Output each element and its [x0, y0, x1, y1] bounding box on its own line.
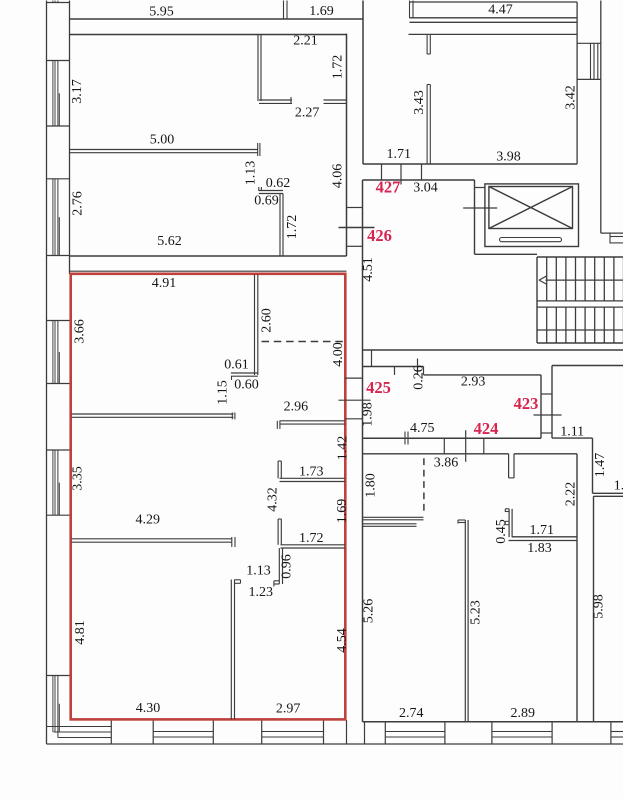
corridor 425 top wall right	[424, 374, 542, 376]
label 3.98	[496, 150, 521, 165]
svg-text:1.69: 1.69	[309, 4, 334, 19]
corridor top wall step	[423, 367, 425, 375]
label 1.83	[527, 541, 552, 556]
svg-text:3.98: 3.98	[496, 150, 521, 165]
svg-text:1.13: 1.13	[244, 161, 259, 186]
room 5.26 top wall	[363, 524, 417, 527]
staircase direction arrow	[539, 276, 623, 285]
stub wall 0.45	[505, 509, 512, 537]
corridor 425 top wall left	[363, 366, 424, 368]
label 2.60	[260, 308, 275, 333]
wall 1.11	[552, 437, 593, 439]
wall 1.72 L-shape	[278, 519, 345, 548]
door connector 423 lower	[541, 432, 552, 434]
apartment divider wall faces at bottom	[347, 720, 365, 744]
closet right wall / corridor wall	[346, 34, 348, 257]
svg-text:4.32: 4.32	[266, 487, 281, 512]
door connector 4.06-426 upper	[347, 207, 363, 209]
upper apartment top wall	[70, 34, 347, 36]
dashed wall line	[423, 458, 425, 514]
wall 5.98	[593, 496, 595, 722]
label 3.35	[71, 466, 86, 491]
svg-text:3.43: 3.43	[412, 90, 427, 115]
label 2.76	[70, 191, 85, 216]
corridor entry tick	[417, 359, 419, 375]
svg-text:425: 425	[366, 378, 391, 397]
room top wall right	[514, 453, 577, 455]
elevator inner box with X	[489, 187, 573, 229]
label 425	[366, 378, 391, 397]
svg-text:2.96: 2.96	[284, 399, 309, 414]
svg-text:1.42: 1.42	[336, 436, 351, 461]
svg-text:427: 427	[376, 177, 401, 196]
svg-text:1.98: 1.98	[361, 402, 376, 427]
door jamb tick b	[400, 164, 402, 185]
svg-text:5.62: 5.62	[157, 234, 182, 249]
label 1.4 clipped at edge	[614, 479, 623, 494]
window W4 on left exterior wall	[47, 321, 70, 384]
partition 3.43 lower	[427, 85, 430, 165]
wall 1.73 L-shape	[278, 461, 345, 482]
corridor south wall	[363, 349, 623, 351]
label 4.29	[136, 513, 161, 528]
svg-text:4.30: 4.30	[136, 701, 161, 716]
svg-text:423: 423	[514, 394, 539, 413]
label 5.95	[149, 5, 174, 20]
wall 2.96 with cap	[277, 421, 345, 429]
room 2.22 right wall	[576, 454, 578, 722]
label 4.81	[73, 620, 88, 645]
svg-text:0.61: 0.61	[224, 358, 249, 373]
tick at 423 door	[534, 414, 562, 416]
label 1.69 red wall	[335, 499, 350, 524]
label 3.42	[564, 85, 579, 110]
svg-text:2.89: 2.89	[511, 706, 536, 721]
wall right of 1.47	[592, 438, 594, 493]
doorway jamb ticks on corridor wall	[405, 432, 408, 445]
label 5.23	[469, 600, 484, 625]
svg-text:3.35: 3.35	[71, 466, 86, 491]
label 1.13 lower	[246, 564, 271, 579]
window 3.42 right wall	[577, 43, 601, 79]
label 1.47	[593, 453, 608, 478]
bottom-left corner glazing wrap	[47, 727, 112, 738]
svg-text:4.00: 4.00	[331, 342, 346, 367]
svg-text:1.72: 1.72	[299, 531, 324, 546]
label 1.11	[560, 425, 584, 440]
top corridor wall	[70, 18, 364, 20]
label 4.32	[266, 487, 281, 512]
window W5 on left exterior wall	[47, 450, 70, 515]
bottom wall window glazing	[153, 732, 623, 738]
right exterior wall top	[600, 1, 602, 234]
wall 427 lower line	[363, 179, 475, 181]
label 4.00	[331, 342, 346, 367]
apartment divider line above red	[70, 270, 347, 272]
svg-text:4.91: 4.91	[152, 276, 177, 291]
wall below 4.47 lower line	[409, 33, 578, 35]
label 0.96	[280, 554, 295, 579]
wall notch	[509, 454, 514, 478]
corridor 425 right wall	[540, 375, 542, 438]
svg-text:0.62: 0.62	[266, 176, 291, 191]
doorway 424-386 left jamb	[443, 438, 445, 454]
svg-text:4.06: 4.06	[331, 164, 346, 189]
label 1.72 closet	[331, 55, 346, 80]
wall 5.23 vertical	[458, 520, 468, 722]
corridor entry jamb a	[371, 350, 373, 367]
wall 1.71 opening upper line	[363, 163, 577, 165]
room wall 5.00 with end cap	[70, 143, 260, 156]
label 4.06	[331, 164, 346, 189]
label 0.60	[234, 378, 259, 393]
shaft bottom wall	[475, 253, 538, 255]
red apartment boundary rectangle	[71, 274, 346, 720]
svg-text:4.47: 4.47	[488, 3, 513, 18]
svg-text:2.60: 2.60	[260, 308, 275, 333]
closet wall 2.60 vertical	[255, 275, 258, 376]
label 426	[367, 226, 392, 245]
label 4.47	[488, 3, 513, 18]
label 2.21	[293, 34, 318, 49]
label 1.23	[249, 585, 274, 600]
svg-text:1.72: 1.72	[285, 215, 300, 240]
label 0.61	[224, 358, 249, 373]
svg-text:2.74: 2.74	[399, 706, 424, 721]
doorway 424-386 right jamb	[483, 438, 485, 454]
label 5.62	[157, 234, 182, 249]
svg-text:1.69: 1.69	[335, 499, 350, 524]
svg-text:1.80: 1.80	[364, 473, 379, 498]
bottom wall window posts	[111, 720, 611, 744]
dashed opening line 4.00	[262, 341, 345, 343]
svg-text:1.15: 1.15	[216, 380, 231, 405]
wall 0.96 with bottom hook	[274, 548, 283, 586]
label 1.42	[336, 436, 351, 461]
door jamb tick a	[381, 164, 383, 180]
label 3.86	[434, 456, 459, 471]
svg-text:3.04: 3.04	[413, 181, 438, 196]
small step wall 0.62/0.69	[259, 187, 283, 256]
svg-text:0.26: 0.26	[412, 365, 427, 390]
window W2 on left exterior wall	[47, 61, 70, 127]
elevator outer box	[485, 184, 579, 247]
top edge line 4.47 room	[410, 1, 578, 3]
door connector 4.06-426 lower	[347, 245, 363, 247]
wall below 4.47 upper line	[410, 18, 578, 23]
wall 4.29 with cap	[72, 537, 236, 547]
label 2.96	[284, 399, 309, 414]
door jamb tick c	[421, 164, 423, 180]
label 0.62	[266, 176, 291, 191]
divider wall 3.66/3.35	[72, 413, 235, 420]
svg-text:0.45: 0.45	[494, 519, 509, 544]
label 1.98	[361, 402, 376, 427]
label 427	[376, 177, 401, 196]
window W6 on left exterior wall	[47, 676, 70, 738]
label 0.26	[412, 365, 427, 390]
elevator connector	[475, 187, 485, 189]
label 1.72 mid	[299, 531, 324, 546]
label 1.15	[216, 380, 231, 405]
wall stub 4.47 left	[410, 1, 414, 19]
svg-text:1.11: 1.11	[560, 425, 584, 440]
corridor 425 bottom wall	[363, 437, 542, 439]
label 5.26	[362, 599, 377, 624]
svg-text:2.93: 2.93	[461, 375, 486, 390]
wall 1.71/1.83	[509, 537, 578, 541]
label 2.27	[295, 105, 320, 120]
label 1.69 top	[309, 4, 334, 19]
window W3 on left exterior wall	[47, 179, 70, 256]
corridor wall vertical lower	[362, 180, 364, 722]
room 3.86 top wall left	[363, 453, 509, 455]
wall band to right edge	[593, 493, 623, 496]
label 3.66	[73, 319, 88, 344]
label 2.93	[461, 375, 486, 390]
svg-text:3.66: 3.66	[73, 319, 88, 344]
svg-text:1.13: 1.13	[246, 564, 271, 579]
label 5.98	[592, 594, 607, 619]
svg-text:2.97: 2.97	[276, 701, 301, 716]
foot wall 0.61/0.60	[231, 373, 258, 380]
label 2.97	[276, 701, 301, 716]
svg-text:2.21: 2.21	[293, 34, 318, 49]
staircase flights	[537, 257, 623, 343]
label 2.74	[399, 706, 424, 721]
label 4.30	[136, 701, 161, 716]
door connector red-corridor lower	[345, 418, 363, 420]
svg-text:5.98: 5.98	[592, 594, 607, 619]
svg-text:2.76: 2.76	[70, 191, 85, 216]
label 5.00	[150, 133, 175, 148]
exterior wall inner line left	[69, 1, 71, 275]
svg-text:2.27: 2.27	[295, 105, 320, 120]
svg-text:426: 426	[367, 226, 392, 245]
svg-text:0.69: 0.69	[254, 194, 279, 209]
label 1.80	[364, 473, 379, 498]
tick across red wall	[339, 399, 371, 401]
corridor entry jamb b	[394, 367, 396, 375]
label 1.13 upper	[244, 161, 259, 186]
elevator door slot	[500, 238, 562, 242]
svg-text:3.42: 3.42	[564, 85, 579, 110]
svg-text:0.60: 0.60	[234, 378, 259, 393]
svg-text:5.00: 5.00	[150, 133, 175, 148]
wall 5.62	[70, 255, 347, 257]
svg-text:424: 424	[474, 419, 499, 438]
svg-text:3.17: 3.17	[70, 79, 85, 104]
doorway tick	[465, 430, 467, 462]
closet bottom wall right stub	[324, 100, 347, 103]
svg-text:5.23: 5.23	[469, 600, 484, 625]
label 2.22	[564, 482, 579, 507]
label 3.04	[413, 181, 438, 196]
elevator shaft left wall	[474, 180, 476, 254]
svg-text:1.72: 1.72	[331, 55, 346, 80]
label 1.71 top	[387, 147, 412, 162]
tick at 426 door	[339, 227, 375, 229]
svg-text:4.51: 4.51	[361, 257, 376, 282]
closet left wall double	[258, 35, 261, 102]
exterior wall outer line left	[46, 1, 48, 745]
room 423 left wall	[551, 366, 553, 439]
label 1.72 lower-left	[285, 215, 300, 240]
stair window lines right edge	[610, 234, 623, 244]
corridor wall vertical upper	[362, 1, 364, 165]
right wall corner line	[601, 232, 623, 234]
bottom wall top line of right apartment	[363, 721, 623, 723]
svg-text:3.86: 3.86	[434, 456, 459, 471]
svg-text:1.71: 1.71	[529, 523, 554, 538]
label 4.75	[410, 421, 435, 436]
label 4.91	[152, 276, 177, 291]
label 1.73	[299, 465, 324, 480]
svg-text:4.81: 4.81	[73, 620, 88, 645]
label 4.54	[335, 628, 350, 653]
window W1 on left exterior wall	[47, 1, 70, 3]
svg-text:0.96: 0.96	[280, 554, 295, 579]
partition 3.43 upper stub	[427, 35, 430, 55]
wall 1.13/1.23 vertical	[231, 580, 240, 720]
svg-text:1.71: 1.71	[387, 147, 412, 162]
bottom exterior wall outer line	[47, 743, 623, 745]
label 3.17	[70, 79, 85, 104]
svg-text:1.4: 1.4	[614, 479, 623, 494]
door connector 423 upper	[541, 393, 552, 395]
label 0.45	[494, 519, 509, 544]
svg-text:1.73: 1.73	[299, 465, 324, 480]
door connector red-corridor upper	[345, 377, 363, 379]
svg-text:1.83: 1.83	[527, 541, 552, 556]
svg-text:4.75: 4.75	[410, 421, 435, 436]
svg-text:4.29: 4.29	[136, 513, 161, 528]
label 3.43	[412, 90, 427, 115]
room 1.80 bottom wall	[363, 517, 424, 520]
room 423 top wall	[552, 365, 623, 367]
wall stub between 5.95 and 1.69	[284, 1, 288, 20]
svg-text:4.54: 4.54	[335, 628, 350, 653]
label 1.71 lower	[529, 523, 554, 538]
label 4.51	[361, 257, 376, 282]
svg-text:5.95: 5.95	[149, 5, 174, 20]
label 0.69	[254, 194, 279, 209]
svg-text:5.26: 5.26	[362, 599, 377, 624]
svg-text:1.23: 1.23	[249, 585, 274, 600]
closet bottom wall left part	[259, 97, 292, 104]
svg-text:1.47: 1.47	[593, 453, 608, 478]
label 2.89	[511, 706, 536, 721]
room 3.98 right wall	[576, 2, 578, 164]
label 424	[474, 419, 499, 438]
tick at elevator	[463, 207, 497, 209]
label 423	[514, 394, 539, 413]
